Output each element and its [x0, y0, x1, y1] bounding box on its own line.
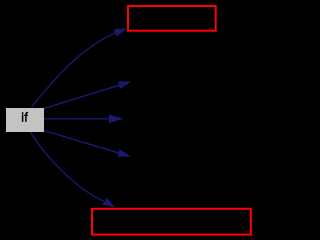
- arrowhead edge 2: [118, 81, 132, 89]
- wire: edge if -> hidden node 3: [44, 118, 110, 120]
- arrowhead edge 1: [114, 28, 128, 36]
- node: top red box (truncated callee): [128, 6, 216, 31]
- arrowhead edge 5: [103, 198, 116, 207]
- wire: edge if -> top red box: [32, 33, 116, 107]
- label if: glyph i stem: [22, 114, 24, 122]
- wire: edge if -> bottom red box: [30, 132, 104, 202]
- wire: edge if -> hidden node 4: [43, 130, 119, 153]
- arrowhead edge 4: [117, 149, 131, 157]
- label if: glyph i dot: [22, 112, 24, 114]
- wire: edge if -> hidden node 2: [43, 85, 119, 109]
- arrowhead edge 3: [109, 114, 124, 123]
- node: if (current function, gray): [6, 108, 44, 132]
- label if: glyph f stem and hook: [26, 113, 28, 122]
- node: bottom red box (truncated callee): [92, 209, 251, 235]
- label if: glyph f crossbar: [24, 114, 28, 116]
